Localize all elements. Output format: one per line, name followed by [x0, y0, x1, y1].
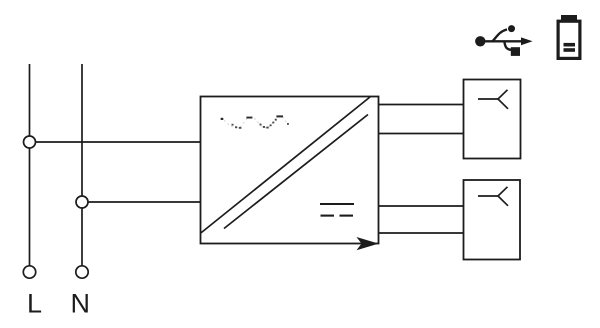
- wire L to converter input: [30, 141, 202, 143]
- node N junction: [76, 196, 88, 208]
- wire converter to block2 output a: [379, 205, 464, 207]
- AC/DC separator diagonal 2: [224, 115, 368, 229]
- wire converter to block1 output a: [379, 104, 464, 106]
- load block 1: [464, 80, 521, 159]
- terminal L: [23, 266, 35, 278]
- USB icon: [475, 25, 533, 56]
- wire converter to block2 output b: [379, 232, 464, 234]
- AC symbol (faint dotted sine): [221, 115, 289, 128]
- AC/DC separator diagonal: [201, 97, 370, 233]
- output arrow: [357, 237, 379, 250]
- power supply U1 (AC/DC converter): [201, 97, 379, 244]
- antenna symbol block1: [478, 90, 508, 109]
- DC symbol: [320, 204, 354, 216]
- svg-text:N: N: [71, 289, 91, 319]
- antenna symbol block2: [478, 187, 508, 206]
- wire L rail: [29, 64, 31, 266]
- wire converter to block1 output b: [379, 133, 464, 135]
- load block 2: [464, 180, 521, 260]
- wire N to converter input: [82, 201, 201, 203]
- svg-text:L: L: [27, 289, 42, 319]
- battery icon: [558, 15, 580, 58]
- node L junction: [24, 136, 36, 148]
- wire N rail: [81, 64, 83, 266]
- terminal N: [76, 266, 88, 278]
